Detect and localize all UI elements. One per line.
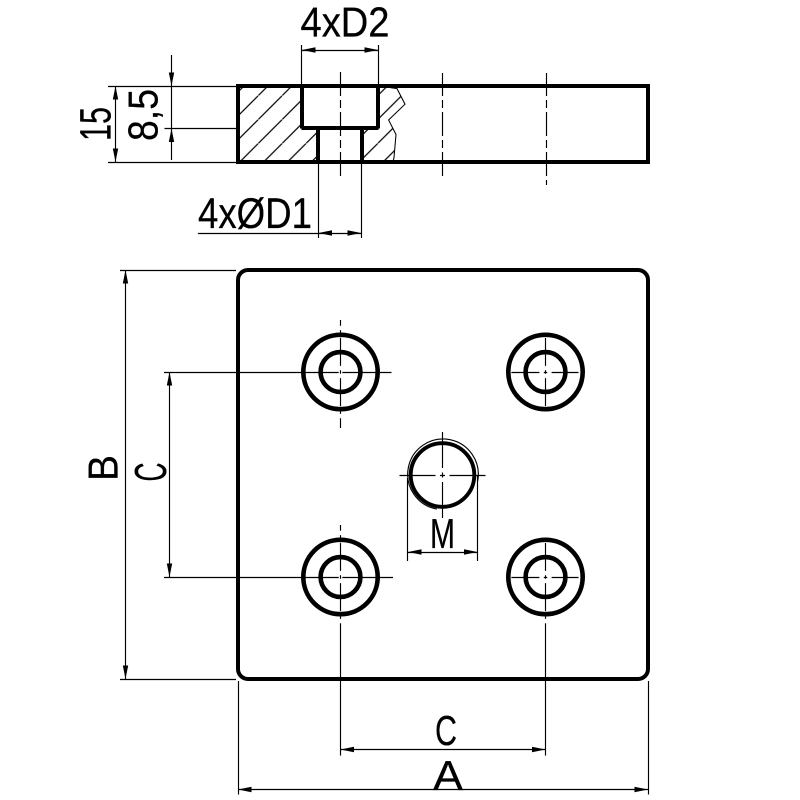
svg-text:C: C [435,707,457,754]
svg-text:A: A [433,752,463,799]
svg-text:4xD2: 4xD2 [301,0,390,46]
svg-text:C: C [125,463,176,482]
svg-text:M: M [430,510,455,557]
svg-text:8,5: 8,5 [120,89,167,141]
svg-text:15: 15 [72,107,121,141]
svg-text:4xØD1: 4xØD1 [198,190,312,238]
svg-text:B: B [80,455,127,481]
